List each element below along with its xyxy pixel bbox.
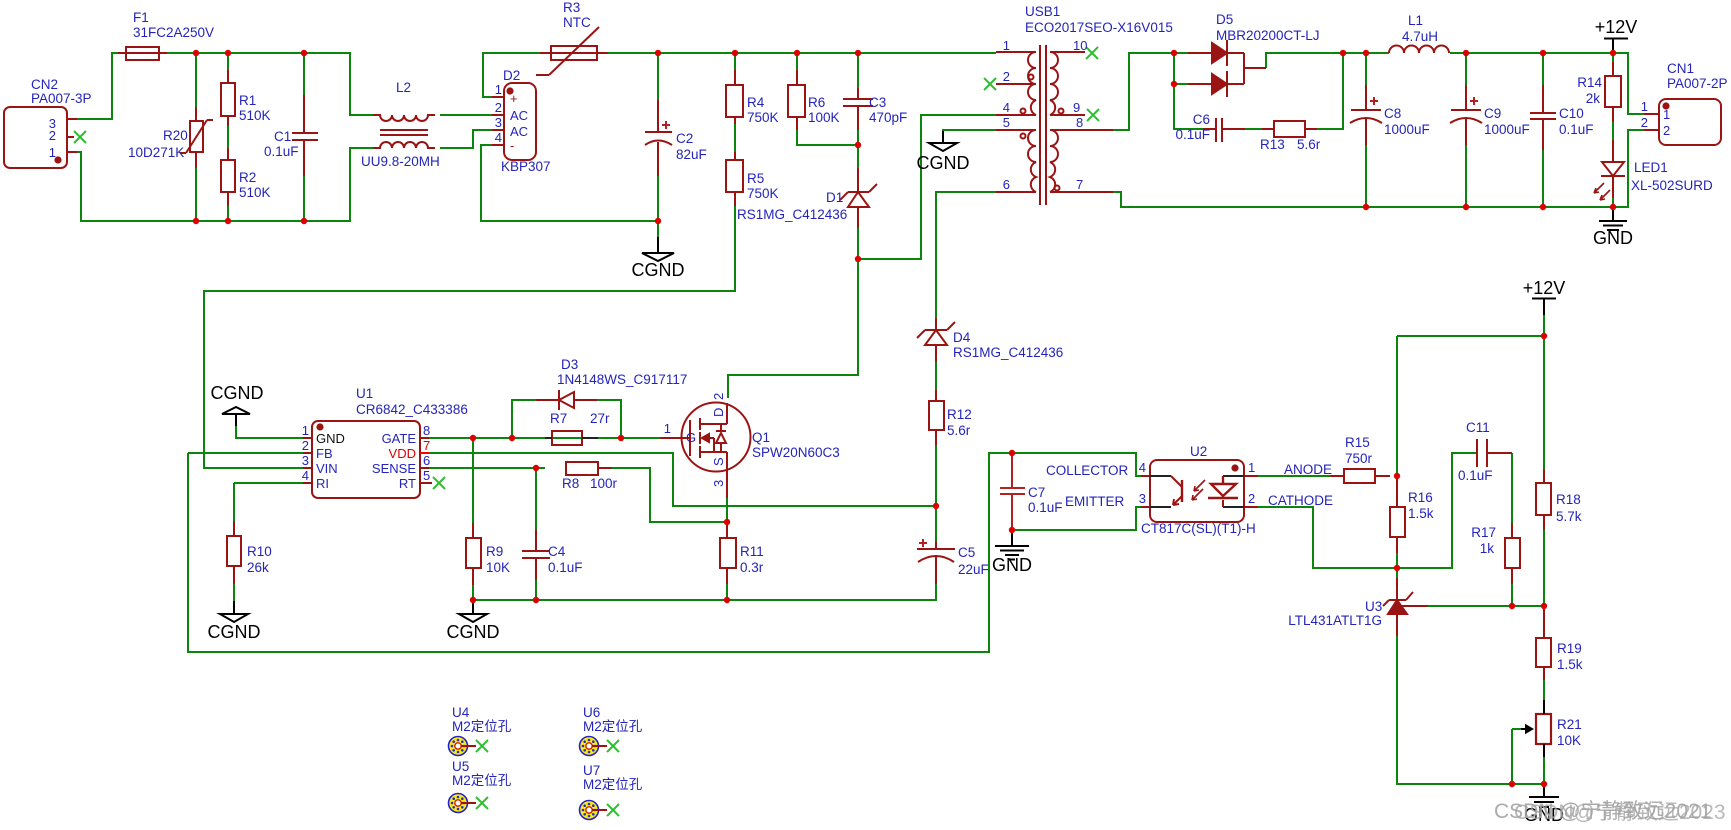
svg-text:9: 9 [1073,100,1080,115]
svg-text:3: 3 [302,453,309,468]
svg-text:L2: L2 [396,80,411,95]
svg-text:U5: U5 [452,759,469,774]
svg-text:3: 3 [711,480,726,487]
svg-text:FB: FB [316,446,333,461]
svg-text:U1: U1 [356,386,373,401]
svg-text:Q1: Q1 [752,430,770,445]
svg-text:8: 8 [1076,115,1083,130]
svg-text:3: 3 [1139,491,1146,506]
svg-text:R8: R8 [562,476,579,491]
svg-text:8: 8 [423,423,430,438]
svg-text:R4: R4 [747,95,765,110]
svg-text:U3: U3 [1365,599,1382,614]
svg-text:C1: C1 [274,129,291,144]
svg-text:RT: RT [399,476,416,491]
svg-text:R7: R7 [550,411,567,426]
svg-text:COLLECTOR: COLLECTOR [1046,463,1129,478]
svg-text:U2: U2 [1190,444,1207,459]
svg-text:S: S [711,457,726,466]
svg-text:-: - [510,138,514,153]
svg-text:+: + [510,91,518,106]
svg-text:C2: C2 [676,131,693,146]
svg-text:U4: U4 [452,705,470,720]
svg-text:G: G [686,430,696,445]
svg-text:10K: 10K [486,560,510,575]
svg-text:XL-502SURD: XL-502SURD [1631,178,1713,193]
svg-text:3: 3 [495,115,502,130]
svg-text:6: 6 [423,453,430,468]
svg-text:2: 2 [1641,115,1648,130]
svg-text:M2定位孔: M2定位孔 [452,773,512,788]
svg-text:USB1: USB1 [1025,4,1060,19]
svg-text:1: 1 [1641,99,1648,114]
svg-text:2: 2 [1663,123,1670,138]
svg-text:MBR20200CT-LJ: MBR20200CT-LJ [1216,28,1320,43]
svg-text:0.1uF: 0.1uF [1559,122,1594,137]
svg-text:R19: R19 [1557,641,1582,656]
svg-text:CGND: CGND [447,622,500,642]
svg-text:5.7k: 5.7k [1556,509,1582,524]
svg-text:0.1uF: 0.1uF [1175,127,1210,142]
svg-text:510K: 510K [239,108,271,123]
svg-text:750K: 750K [747,110,779,125]
svg-text:C7: C7 [1028,485,1045,500]
svg-text:R6: R6 [808,95,825,110]
svg-text:CGND: CGND [208,622,261,642]
svg-text:750K: 750K [747,186,779,201]
svg-text:22uF: 22uF [958,562,989,577]
svg-text:1.5k: 1.5k [1557,657,1583,672]
svg-text:CR6842_C433386: CR6842_C433386 [356,402,468,417]
svg-text:D: D [711,408,726,417]
svg-text:10K: 10K [1557,733,1581,748]
svg-text:27r: 27r [590,411,610,426]
svg-text:2: 2 [711,393,726,400]
svg-text:LTL431ATLT1G: LTL431ATLT1G [1288,613,1382,628]
svg-text:C5: C5 [958,545,975,560]
svg-text:+12V: +12V [1523,278,1566,298]
svg-text:1.5k: 1.5k [1408,506,1434,521]
svg-text:0.1uF: 0.1uF [264,144,299,159]
svg-text:6: 6 [1003,177,1010,192]
svg-text:M2定位孔: M2定位孔 [452,719,512,734]
svg-text:F1: F1 [133,10,149,25]
svg-text:R18: R18 [1556,492,1581,507]
svg-text:CGND: CGND [917,153,970,173]
svg-text:CGND: CGND [632,260,685,280]
svg-text:2k: 2k [1586,91,1601,106]
svg-text:1: 1 [1663,107,1670,122]
svg-text:RS1MG_C412436: RS1MG_C412436 [737,207,847,222]
svg-text:D2: D2 [503,68,520,83]
svg-text:750r: 750r [1345,451,1373,466]
svg-text:ANODE: ANODE [1284,462,1332,477]
svg-text:4: 4 [495,130,502,145]
svg-text:C8: C8 [1384,106,1401,121]
svg-text:AC: AC [510,108,528,123]
svg-text:VIN: VIN [316,461,338,476]
svg-text:R3: R3 [563,0,580,15]
svg-text:100K: 100K [808,110,840,125]
svg-text:R17: R17 [1471,525,1496,540]
svg-text:1: 1 [302,423,309,438]
svg-text:10: 10 [1073,38,1087,53]
svg-text:D3: D3 [561,357,578,372]
svg-text:LED1: LED1 [1634,160,1668,175]
svg-text:C9: C9 [1484,106,1501,121]
svg-text:UU9.8-20MH: UU9.8-20MH [361,154,440,169]
svg-text:2: 2 [49,128,56,143]
svg-text:CSDN@宁静致远2023: CSDN@宁静致远2023 [1514,801,1726,824]
svg-text:R21: R21 [1557,717,1582,732]
svg-text:CATHODE: CATHODE [1268,493,1333,508]
svg-text:D1: D1 [826,190,843,205]
svg-text:C11: C11 [1466,420,1490,435]
svg-text:R12: R12 [947,407,972,422]
svg-text:PA007-2P: PA007-2P [1667,76,1728,91]
svg-text:2: 2 [1003,69,1010,84]
svg-text:M2定位孔: M2定位孔 [583,719,643,734]
svg-text:GND: GND [992,555,1032,575]
svg-text:5: 5 [1003,115,1010,130]
svg-text:2: 2 [495,100,502,115]
svg-text:82uF: 82uF [676,147,707,162]
svg-text:R14: R14 [1577,75,1602,90]
svg-text:1: 1 [1003,38,1010,53]
svg-text:EMITTER: EMITTER [1065,494,1124,509]
svg-text:0.3r: 0.3r [740,560,764,575]
svg-text:R15: R15 [1345,435,1370,450]
svg-text:M2定位孔: M2定位孔 [583,777,643,792]
svg-text:0.1uF: 0.1uF [548,560,583,575]
svg-text:1: 1 [1248,460,1255,475]
svg-text:R5: R5 [747,171,764,186]
svg-text:KBP307: KBP307 [501,159,551,174]
svg-text:31FC2A250V: 31FC2A250V [133,25,214,40]
svg-text:CN1: CN1 [1667,61,1694,76]
svg-text:CT817C(SL)(T1)-H: CT817C(SL)(T1)-H [1141,521,1256,536]
svg-text:4.7uH: 4.7uH [1402,29,1438,44]
svg-text:0.1uF: 0.1uF [1458,468,1493,483]
svg-text:PA007-3P: PA007-3P [31,91,92,106]
svg-text:GND: GND [316,431,345,446]
svg-text:10D271K: 10D271K [128,145,184,160]
svg-text:SENSE: SENSE [372,461,416,476]
svg-text:GND: GND [1593,228,1633,248]
svg-text:R10: R10 [247,544,272,559]
svg-text:C4: C4 [548,544,566,559]
svg-text:R1: R1 [239,93,256,108]
svg-text:CGND: CGND [211,383,264,403]
svg-text:CN2: CN2 [31,77,58,92]
svg-text:470pF: 470pF [869,110,907,125]
svg-text:C6: C6 [1193,112,1210,127]
svg-text:AC: AC [510,124,528,139]
svg-text:7: 7 [423,438,430,453]
svg-text:1: 1 [664,421,671,436]
svg-text:SPW20N60C3: SPW20N60C3 [752,445,840,460]
svg-text:L1: L1 [1408,13,1423,28]
svg-text:1: 1 [495,82,502,97]
svg-text:0.1uF: 0.1uF [1028,500,1063,515]
svg-text:1000uF: 1000uF [1384,122,1430,137]
svg-text:2: 2 [302,438,309,453]
svg-text:VDD: VDD [389,446,416,461]
svg-text:5.6r: 5.6r [1297,137,1321,152]
svg-text:R11: R11 [740,544,764,559]
svg-text:510K: 510K [239,185,271,200]
svg-text:D4: D4 [953,330,971,345]
svg-text:4: 4 [302,468,309,483]
svg-text:1: 1 [49,145,56,160]
svg-text:7: 7 [1076,177,1083,192]
svg-text:ECO2017SEO-X16V015: ECO2017SEO-X16V015 [1025,20,1173,35]
svg-text:5.6r: 5.6r [947,423,971,438]
svg-text:NTC: NTC [563,15,591,30]
svg-text:1k: 1k [1480,541,1495,556]
svg-text:C10: C10 [1559,106,1584,121]
svg-text:C3: C3 [869,95,886,110]
svg-text:26k: 26k [247,560,269,575]
svg-text:D5: D5 [1216,12,1233,27]
svg-text:1000uF: 1000uF [1484,122,1530,137]
svg-text:R2: R2 [239,170,256,185]
svg-text:2: 2 [1248,491,1255,506]
svg-text:U7: U7 [583,763,600,778]
svg-text:+12V: +12V [1595,17,1638,37]
svg-text:R13: R13 [1260,137,1285,152]
svg-text:4: 4 [1003,100,1010,115]
svg-text:R16: R16 [1408,490,1433,505]
svg-text:5: 5 [423,468,430,483]
svg-text:R20: R20 [163,128,188,143]
svg-text:GATE: GATE [382,431,417,446]
svg-text:RI: RI [316,476,329,491]
svg-text:4: 4 [1139,460,1146,475]
svg-text:RS1MG_C412436: RS1MG_C412436 [953,345,1063,360]
svg-text:1N4148WS_C917117: 1N4148WS_C917117 [557,372,687,387]
svg-text:100r: 100r [590,476,618,491]
svg-text:U6: U6 [583,705,600,720]
svg-text:R9: R9 [486,544,503,559]
